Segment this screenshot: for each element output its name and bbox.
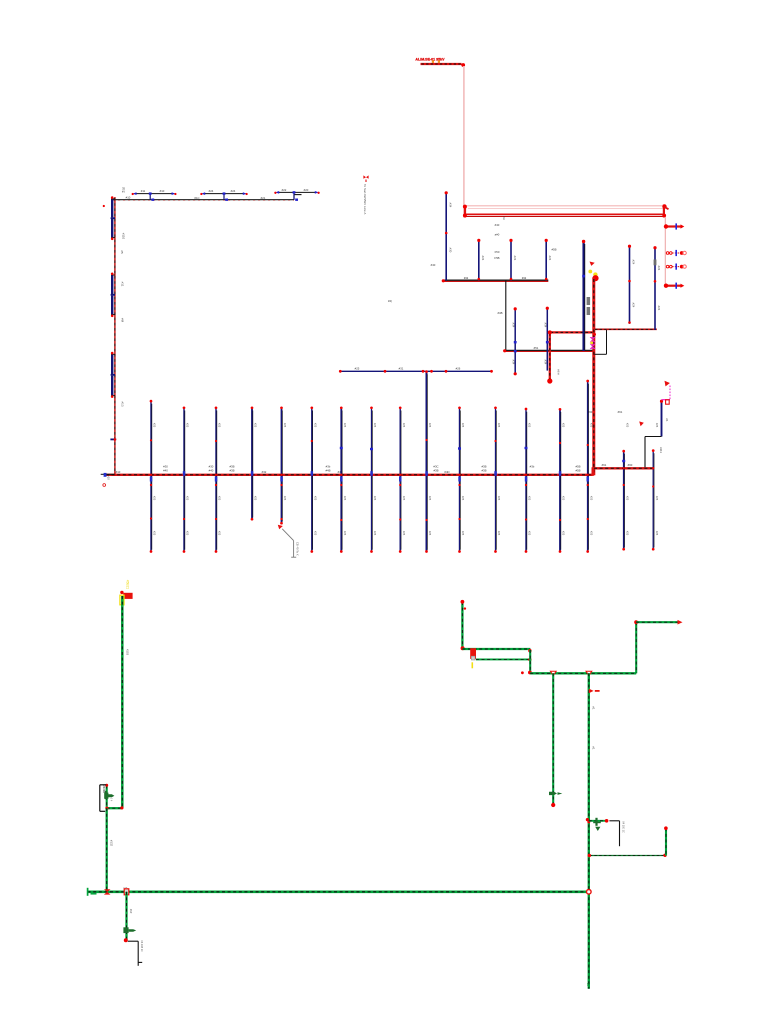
svg-text:CB 40 To X: CB 40 To X	[296, 542, 300, 556]
branch V661	[661, 401, 663, 437]
svg-text:#25: #25	[153, 531, 157, 536]
cluster lateral V511	[510, 240, 512, 280]
feeder trunk (thick red vertical)	[592, 275, 598, 281]
NE corner drop	[529, 650, 531, 673]
svg-text:#5B: #5B	[552, 248, 557, 252]
header H329	[594, 328, 657, 330]
branch G5	[552, 673, 554, 804]
svg-text:#11: #11	[141, 189, 146, 193]
svg-text:#34: #34	[511, 323, 515, 328]
svg-text:#25: #25	[562, 423, 566, 428]
svg-text:#25: #25	[589, 496, 593, 501]
svg-text:#40: #40	[163, 469, 168, 473]
svg-text:#20: #20	[304, 188, 309, 192]
svg-text:#25: #25	[314, 423, 318, 428]
lateral bracket TB1	[134, 193, 174, 195]
NE header B	[476, 658, 530, 660]
svg-text:#25: #25	[497, 496, 501, 501]
lateral bracket TB2	[203, 193, 245, 195]
lateral V560	[559, 409, 561, 552]
lateral V426	[426, 371, 428, 552]
lateral V495	[495, 408, 497, 552]
svg-text:4103: 4103	[126, 649, 130, 656]
svg-text:#111: #111	[659, 447, 663, 453]
svg-text:#25: #25	[373, 423, 377, 428]
lateral V400	[399, 408, 401, 552]
svg-text:#24: #24	[231, 189, 236, 193]
svg-text:#61: #61	[618, 410, 623, 414]
svg-text:#34: #34	[448, 203, 452, 208]
svg-text:#25: #25	[283, 496, 287, 501]
svg-text:#25: #25	[589, 423, 593, 428]
svg-text:#25: #25	[655, 496, 659, 501]
lateral V371	[371, 408, 373, 552]
main south trunk G6	[588, 673, 590, 989]
lateral V459	[459, 408, 461, 552]
long lateral V583	[582, 241, 584, 351]
svg-text:#25: #25	[528, 531, 532, 536]
feeder head line	[421, 63, 462, 65]
svg-text:#61: #61	[602, 463, 607, 467]
svg-text:#1C: #1C	[194, 196, 199, 200]
svg-text:#24: #24	[548, 256, 552, 261]
svg-text:#10: #10	[116, 470, 121, 474]
bottom main feeder	[88, 890, 589, 893]
svg-text:#10: #10	[126, 196, 131, 200]
mid lateral header H371	[340, 370, 492, 372]
svg-text:#4D: #4D	[444, 470, 449, 474]
riser bracket VB1	[111, 199, 113, 218]
red branch L549	[550, 331, 594, 333]
main bus left section	[105, 474, 593, 476]
svg-text:45B21: 45B21	[126, 580, 130, 590]
svg-text:#25: #25	[186, 423, 190, 428]
svg-text:#3B: #3B	[434, 469, 439, 473]
NE riser G4	[461, 602, 463, 648]
G5 load arrows	[549, 792, 557, 795]
NE east header	[636, 621, 677, 623]
svg-text:#25: #25	[254, 496, 258, 501]
lateral V629	[629, 246, 631, 324]
main line T1	[113, 199, 294, 201]
svg-text:#24: #24	[209, 189, 214, 193]
riser tap tick	[110, 438, 116, 440]
cluster header C280	[443, 280, 548, 282]
yellow fuse marks	[588, 270, 592, 274]
lateral V216	[215, 408, 217, 552]
svg-text:#132: #132	[109, 840, 113, 847]
svg-text:#34: #34	[544, 323, 548, 328]
top tie line (red pair)	[465, 213, 665, 215]
load stub B	[666, 252, 669, 255]
svg-text:#25: #25	[528, 423, 532, 428]
left main riser R1	[114, 197, 116, 475]
svg-text:#25: #25	[562, 496, 566, 501]
svg-text:#24: #24	[481, 256, 485, 261]
svg-text:#31: #31	[399, 367, 404, 371]
svg-text:1C: 1C	[586, 983, 590, 986]
svg-text:#25: #25	[355, 367, 360, 371]
node left corner	[103, 205, 105, 207]
svg-text:#25: #25	[314, 496, 318, 501]
lateral V281	[281, 408, 283, 524]
svg-text:#25: #25	[186, 531, 190, 536]
magenta service	[662, 399, 671, 401]
tie left connector	[464, 205, 466, 218]
lateral V653	[652, 450, 654, 549]
svg-text:#32: #32	[262, 470, 267, 474]
cluster lateral V479	[478, 240, 480, 280]
svg-text:#24: #24	[632, 260, 636, 265]
svg-text:#40: #40	[209, 469, 214, 473]
lateral V184	[183, 408, 185, 552]
lateral V526	[525, 409, 527, 552]
svg-text:#4B: #4B	[498, 311, 503, 315]
svg-text:#25: #25	[373, 531, 377, 536]
svg-text:#42: #42	[464, 276, 469, 280]
svg-text:#25: #25	[402, 531, 406, 536]
svg-text:#25: #25	[461, 531, 465, 536]
svg-text:ALIM.SE-01 35kV: ALIM.SE-01 35kV	[415, 58, 445, 62]
svg-text:#25: #25	[343, 496, 347, 501]
red connector box	[470, 648, 476, 659]
bus left stub	[101, 473, 115, 475]
jog stub up	[106, 786, 108, 809]
svg-text:04 108 10: 04 108 10	[140, 940, 143, 952]
load stub D	[665, 285, 681, 287]
branch G3 down	[125, 892, 127, 940]
svg-text:#10: #10	[129, 909, 133, 914]
svg-text:To San 02/35kV Line A: To San 02/35kV Line A	[363, 184, 367, 214]
branch riser G7	[665, 828, 667, 855]
svg-text:#3B: #3B	[230, 469, 235, 473]
svg-text:#34: #34	[544, 360, 548, 365]
svg-text:#1: #1	[591, 706, 595, 710]
magenta switch marks	[591, 337, 595, 341]
svg-text:#1: #1	[665, 418, 669, 422]
svg-text:#13: #13	[120, 401, 124, 406]
callout B2	[609, 820, 619, 822]
branch link black	[645, 436, 662, 438]
small arrow mark	[639, 421, 644, 426]
svg-text:#42: #42	[522, 276, 527, 280]
junction marker M1	[104, 889, 111, 892]
riser bracket VB2	[111, 275, 113, 294]
svg-text:#60: #60	[628, 463, 633, 467]
svg-text:#25: #25	[589, 531, 593, 536]
svg-text:#10: #10	[160, 189, 165, 193]
load stub C	[666, 265, 669, 268]
G6 tap T821	[586, 818, 589, 821]
top double tie line (pink pair)	[465, 205, 664, 207]
svg-text:#30: #30	[448, 248, 452, 253]
svg-text:#40: #40	[495, 223, 500, 227]
svg-text:#24: #24	[657, 266, 661, 271]
svg-text:#25: #25	[655, 423, 659, 428]
lateral V341	[340, 408, 342, 552]
svg-text:#25: #25	[218, 496, 222, 501]
svg-text:#25: #25	[153, 423, 157, 428]
feeder tap orange marks	[432, 60, 434, 63]
svg-text:#25: #25	[625, 531, 629, 536]
svg-text:C#: C#	[502, 216, 506, 220]
rotated note: to substation line	[363, 175, 368, 178]
svg-text:#40: #40	[431, 263, 436, 267]
svg-text:#25: #25	[373, 496, 377, 501]
left terminal	[87, 888, 89, 896]
svg-text:#4): #4)	[388, 299, 392, 303]
svg-text:#51: #51	[534, 346, 539, 350]
svg-text:#26: #26	[456, 367, 461, 371]
branch H855	[589, 855, 666, 857]
svg-text:#4B: #4B	[326, 469, 331, 473]
svg-text:#25: #25	[528, 496, 532, 501]
svg-text:04 100 1C: 04 100 1C	[621, 821, 624, 833]
svg-text:#25: #25	[428, 423, 432, 428]
svg-text:#25: #25	[428, 531, 432, 536]
callout B1	[128, 940, 138, 942]
svg-text:#25: #25	[428, 496, 432, 501]
green riser G2	[106, 808, 108, 891]
cluster lateral V547	[546, 308, 548, 371]
svg-text:#25: #25	[218, 531, 222, 536]
svg-text:#5B: #5B	[576, 469, 581, 473]
svg-text:#25: #25	[461, 423, 465, 428]
small red arrow	[590, 262, 595, 266]
NE trunk H673	[530, 672, 636, 674]
lateral bracket TB3	[277, 191, 317, 193]
svg-text:#21: #21	[261, 196, 266, 200]
NE east riser	[635, 622, 637, 673]
svg-text:#25: #25	[625, 423, 629, 428]
svg-text:#25: #25	[314, 531, 318, 536]
H371 nodes	[339, 370, 342, 373]
switch marker S2	[586, 671, 592, 675]
lateral V655	[654, 248, 656, 331]
svg-text:F50: F50	[495, 250, 500, 254]
svg-text:#25: #25	[218, 423, 222, 428]
NE header A	[462, 648, 530, 650]
transformer symbol TB	[123, 927, 128, 933]
svg-text:#1: #1	[591, 746, 595, 750]
svg-text:#6 #: #6 #	[557, 369, 561, 375]
svg-text:#25: #25	[186, 496, 190, 501]
svg-text:#3b: #3b	[530, 464, 535, 468]
svg-text:#25: #25	[461, 496, 465, 501]
switch marker S1	[550, 671, 556, 675]
svg-text:#22: #22	[282, 188, 287, 192]
svg-text:#3B: #3B	[482, 469, 487, 473]
cluster lateral V515	[514, 309, 516, 374]
node G6 x main	[587, 890, 592, 895]
cluster lateral V546	[545, 240, 547, 280]
svg-text:F5B: F5B	[494, 256, 499, 260]
label box	[99, 785, 101, 812]
svg-text:#25: #25	[625, 496, 629, 501]
transformer symbol TR	[595, 818, 597, 826]
svg-text:a#0: a#0	[495, 233, 500, 237]
svg-text:#24: #24	[657, 306, 661, 311]
line step	[293, 195, 295, 200]
lateral V623	[623, 451, 625, 550]
V281 tail branch	[278, 525, 283, 529]
svg-text:#10: #10	[106, 475, 110, 480]
lateral V252	[251, 408, 253, 520]
green main riser G1	[121, 596, 124, 808]
lateral V587	[587, 381, 589, 552]
main bus right section	[593, 467, 654, 469]
svg-text:#34: #34	[511, 360, 515, 365]
feeder drop wire (pink)	[463, 66, 465, 206]
svg-text:#25: #25	[497, 423, 501, 428]
svg-text:#11: #11	[120, 282, 124, 287]
svg-text:0 4: 0 4	[110, 798, 113, 802]
tie right connector	[663, 205, 665, 218]
svg-text:#25: #25	[562, 531, 566, 536]
svg-text:#25: #25	[655, 531, 659, 536]
svg-text:kV: kV	[122, 190, 125, 194]
cluster drop wire	[505, 281, 507, 351]
svg-text:#25: #25	[497, 531, 501, 536]
svg-text:#M: #M	[120, 318, 124, 323]
yellow cutout box	[120, 595, 124, 605]
svg-text:#25: #25	[343, 531, 347, 536]
flag head red marker	[123, 593, 132, 599]
lateral V151	[150, 401, 152, 552]
svg-text:#24: #24	[632, 303, 636, 308]
jog horizontal	[107, 807, 123, 809]
bus elbow	[591, 467, 594, 476]
svg-text:#25: #25	[283, 423, 287, 428]
cluster lateral V446	[445, 193, 447, 281]
svg-text:#25: #25	[402, 496, 406, 501]
svg-text:#110: #110	[122, 233, 126, 240]
svg-text:#25: #25	[153, 496, 157, 501]
riser wire right (pink)	[664, 217, 666, 285]
cluster header H351	[505, 350, 594, 352]
black step link	[595, 353, 607, 355]
transformer symbol TL	[104, 793, 114, 799]
load stub A	[665, 225, 681, 227]
svg-text:#25: #25	[254, 423, 258, 428]
node feeder head	[461, 63, 465, 67]
riser bracket VB3	[111, 354, 113, 374]
svg-text:#24: #24	[513, 256, 517, 261]
svg-text:#25: #25	[343, 423, 347, 428]
svg-text:#25: #25	[402, 423, 406, 428]
G6 junction arrow	[589, 689, 594, 694]
lateral V311	[311, 408, 313, 552]
svg-text:#5: #5	[120, 250, 124, 254]
